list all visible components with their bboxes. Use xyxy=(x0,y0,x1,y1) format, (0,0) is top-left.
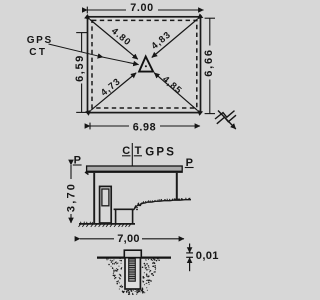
node dim-6.98-bottom xyxy=(90,123,200,130)
svg-text:6.98: 6.98 xyxy=(133,122,156,134)
node plan-square-dashed xyxy=(92,20,197,108)
node label-4.73 xyxy=(98,75,122,98)
svg-text:6,66: 6,66 xyxy=(203,48,215,77)
wire ground-elevation xyxy=(79,222,136,227)
node dim-0.01 xyxy=(186,244,193,272)
node plan-square-solid xyxy=(88,17,201,113)
node label-4.83 xyxy=(149,28,173,51)
wire diagonal-4.73 xyxy=(91,73,136,110)
wire CT-underlines xyxy=(122,155,142,157)
node station-triangle xyxy=(139,57,153,72)
wire diagonal-4.80 xyxy=(90,20,138,60)
svg-text:7.00: 7.00 xyxy=(130,2,153,14)
svg-text:T: T xyxy=(135,145,142,157)
node north-zigzag xyxy=(215,111,236,130)
wire post-right xyxy=(174,173,180,200)
node bolt-rod-threads xyxy=(129,259,136,281)
wire leader-GPS-CT xyxy=(49,44,139,65)
svg-text:0,01: 0,01 xyxy=(196,250,219,262)
node dim-6.59-left xyxy=(76,33,87,113)
wire detail-groundline xyxy=(97,257,171,259)
node detail-stipple xyxy=(107,258,160,294)
node dim-7.00-elev xyxy=(80,238,184,240)
wire diagonal-4.83 xyxy=(152,19,198,58)
svg-text:C: C xyxy=(122,145,130,157)
node dim-7.00-top xyxy=(87,7,203,14)
node door xyxy=(100,186,112,223)
node dim-3.70 xyxy=(70,165,72,223)
node label-GPS-CT xyxy=(27,35,53,58)
svg-text:7,00: 7,00 xyxy=(117,233,140,245)
node bench xyxy=(114,209,135,224)
svg-text:6,59: 6,59 xyxy=(74,54,86,82)
svg-text:GPS: GPS xyxy=(145,147,176,159)
node label-4.85 xyxy=(161,73,185,96)
node dim-6.66-right xyxy=(205,18,215,113)
wire P-left-underline xyxy=(73,164,82,166)
wire diagonal-4.85 xyxy=(154,73,197,110)
svg-text:3,70: 3,70 xyxy=(66,182,78,212)
node label-4.80 xyxy=(110,25,134,48)
node label-CT-GPS-elev xyxy=(122,145,176,159)
node station-dot xyxy=(145,65,147,67)
node bolt-sleeve xyxy=(125,258,140,289)
node bolt-head xyxy=(124,250,141,257)
node terrain-slope xyxy=(132,198,191,211)
wire CT-plumb xyxy=(131,143,133,166)
wire wall-left xyxy=(93,173,95,224)
svg-text:CT: CT xyxy=(29,47,47,58)
wire P-right-underline xyxy=(185,167,194,169)
node beam xyxy=(85,166,182,175)
